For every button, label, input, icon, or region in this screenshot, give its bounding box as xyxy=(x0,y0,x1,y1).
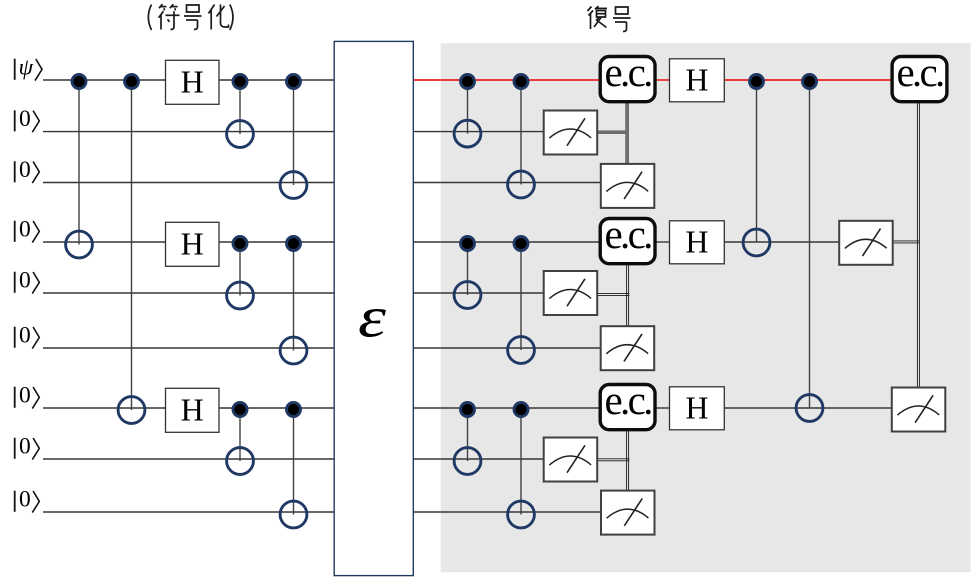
svg-text:H: H xyxy=(181,63,204,99)
title decoding (fukugou) xyxy=(588,6,631,31)
wire vertical CNOT q1-q3 decode xyxy=(520,82,522,185)
svg-text:H: H xyxy=(685,223,708,259)
target circle q2 decode xyxy=(454,120,481,147)
wire vertical CNOT q1-q4 encode xyxy=(78,82,80,245)
svg-text:e.c.: e.c. xyxy=(605,211,652,257)
error-correction box e.c. q4 xyxy=(600,211,655,264)
target circle q9 decode xyxy=(508,501,535,528)
wire q1 red to e.c.1 xyxy=(413,79,600,81)
wire q7 decode c xyxy=(724,407,892,409)
wire vertical CNOT q4-q6 decode xyxy=(520,244,522,351)
meter q5 xyxy=(544,271,598,315)
target circle q3 encode xyxy=(280,172,307,199)
ket label zero q8 xyxy=(15,434,40,460)
classical double vertical e.c. g3 to meter q9 xyxy=(627,431,629,491)
wire q8 encode xyxy=(43,458,334,460)
target circle q9 encode xyxy=(280,501,307,528)
ket label zero q7 xyxy=(15,383,40,409)
meter q8 xyxy=(544,438,598,482)
svg-text:H: H xyxy=(685,61,708,97)
error-correction box e.c. final q1 xyxy=(892,49,947,102)
classical wire thick horizontal meter q2 junction xyxy=(597,130,629,134)
wire q1 encode xyxy=(43,79,334,81)
control dot q4 c xyxy=(461,237,475,251)
meter q9 xyxy=(601,491,655,535)
wire vertical CNOT q7-q8 encode xyxy=(239,410,241,462)
wire q9 encode xyxy=(43,511,334,513)
classical wire thick vertical e.c.1 to meter q3 xyxy=(625,102,629,164)
wire q1 red e.c.1-H xyxy=(655,79,670,81)
wire q2 decode xyxy=(413,131,543,133)
svg-text:0: 0 xyxy=(19,268,31,294)
error-correction box e.c. q7 xyxy=(600,377,655,430)
wire vertical CNOT q1-q7 encode xyxy=(131,82,133,411)
ket label zero q4 xyxy=(15,217,40,243)
H gate q4 decode xyxy=(670,221,725,264)
wire vertical CNOT q7-q9 decode xyxy=(520,410,522,515)
wire q2 encode xyxy=(43,131,334,133)
wire q4 decode b xyxy=(655,241,670,243)
target circle q6 encode xyxy=(280,337,307,364)
svg-text:0: 0 xyxy=(19,323,31,349)
target circle q5 decode xyxy=(454,282,481,309)
wire vertical CNOT q4-q5 decode xyxy=(467,244,469,296)
meter q6 xyxy=(601,326,655,370)
wire q4 decode c xyxy=(724,241,839,243)
H gate q4 encode xyxy=(166,222,220,266)
wire q1 red H-e.c.2 xyxy=(724,79,892,81)
wire vertical CNOT q1-q4 correction xyxy=(756,82,758,243)
classical double horizontal meter q8 junction xyxy=(597,459,629,461)
svg-text:0: 0 xyxy=(19,434,31,460)
meter q3 xyxy=(601,164,655,208)
wire q7 decode b xyxy=(655,407,670,409)
H gate q7 decode xyxy=(670,387,725,430)
classical double vertical e.c.2 to meter q7 xyxy=(917,102,919,388)
meter q2 xyxy=(544,111,598,155)
ket label zero q2 xyxy=(15,106,40,132)
title encoding (fugouka) xyxy=(148,4,233,30)
classical double horizontal meter q5 junction xyxy=(597,294,629,296)
svg-text:e.c.: e.c. xyxy=(896,49,943,95)
ket label zero q3 xyxy=(15,157,40,183)
svg-text:0: 0 xyxy=(19,106,31,132)
control dot q1 g xyxy=(750,75,764,89)
control dot q1 c xyxy=(233,75,247,89)
H gate q7 encode xyxy=(166,388,220,432)
wire q3 encode xyxy=(43,182,334,184)
control dot q7 b xyxy=(287,403,301,417)
target circle q6 decode xyxy=(508,337,535,364)
wire q5 encode xyxy=(43,292,334,294)
control dot q1 d xyxy=(287,75,301,89)
svg-text:H: H xyxy=(181,225,204,261)
control dot q4 a xyxy=(233,237,247,251)
control dot q4 b xyxy=(287,237,301,251)
wire q5 decode xyxy=(413,292,543,294)
H gate q1 encode xyxy=(166,60,220,104)
classical double horizontal meter q4 junction xyxy=(893,241,920,243)
target circle q2 encode xyxy=(227,121,254,148)
ket label zero q5 xyxy=(15,268,40,294)
wire q4 encode xyxy=(43,241,334,243)
control dot q7 d xyxy=(514,403,528,417)
wire q4 decode a xyxy=(413,241,600,243)
wire q9 decode xyxy=(413,511,601,513)
wire q6 decode xyxy=(413,347,600,349)
control dot q1 f xyxy=(514,75,528,89)
control dot q7 a xyxy=(233,403,247,417)
wire q6 encode xyxy=(43,347,334,349)
target circle q5 encode xyxy=(227,282,254,309)
target circle q4 from q1 xyxy=(66,231,93,258)
wire q3 decode xyxy=(413,182,601,184)
svg-text:0: 0 xyxy=(19,217,31,243)
classical double vertical e.c. g2 to meter q6 xyxy=(627,264,629,327)
wire vertical CNOT q4-q6 encode xyxy=(293,244,295,351)
target circle q4 correction xyxy=(743,229,770,256)
svg-text:H: H xyxy=(685,389,708,425)
wire q7 decode a xyxy=(413,407,600,409)
meter q4 xyxy=(839,221,893,265)
control dot q7 c xyxy=(461,403,475,417)
svg-text:H: H xyxy=(181,391,204,427)
wire vertical CNOT q4-q5 encode xyxy=(239,244,241,296)
svg-text:e.c.: e.c. xyxy=(605,49,652,95)
target circle q7 correction xyxy=(796,395,823,422)
decoder gray panel xyxy=(441,43,971,572)
wire vertical CNOT q1-q3 encode xyxy=(293,82,295,186)
control dot q1 a xyxy=(72,75,86,89)
svg-text:e.c.: e.c. xyxy=(605,377,652,423)
control dot q4 d xyxy=(514,237,528,251)
control dot q1 e xyxy=(461,75,475,89)
wire vertical CNOT q7-q9 encode xyxy=(293,410,295,515)
svg-text:ε: ε xyxy=(358,285,386,350)
target circle q7 from q1 xyxy=(118,397,145,424)
svg-text:0: 0 xyxy=(19,383,31,409)
ket label zero q9 xyxy=(15,487,40,513)
wire vertical CNOT q1-q2 encode xyxy=(239,82,241,135)
ket label psi q1 xyxy=(15,55,42,81)
wire vertical CNOT q1-q7 correction xyxy=(809,82,811,409)
svg-text:ψ: ψ xyxy=(19,55,34,81)
control dot q1 h xyxy=(803,75,817,89)
meter q7 xyxy=(892,388,946,432)
target circle q8 encode xyxy=(227,448,254,475)
wire vertical CNOT q7-q8 decode xyxy=(467,410,469,462)
channel box script-E xyxy=(334,41,413,575)
H gate q1 decode xyxy=(670,59,725,102)
error-correction box e.c. q1 xyxy=(600,49,655,102)
control dot q1 b xyxy=(125,75,139,89)
svg-text:0: 0 xyxy=(19,487,31,513)
svg-text:0: 0 xyxy=(19,157,31,183)
target circle q3 decode xyxy=(508,171,535,198)
ket label zero q6 xyxy=(15,323,40,349)
wire q7 encode xyxy=(43,407,334,409)
wire vertical CNOT q1-q2 decode xyxy=(467,82,469,134)
wire q8 decode xyxy=(413,458,543,460)
target circle q8 decode xyxy=(454,448,481,475)
